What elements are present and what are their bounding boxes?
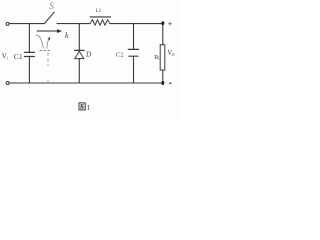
wire C2 top <box>133 24 135 49</box>
svg-text:C2: C2 <box>116 52 124 59</box>
wire C1 top <box>28 24 30 52</box>
svg-text:S: S <box>49 1 54 11</box>
inductor L1 core bar <box>90 16 111 18</box>
current arrow k <box>37 30 61 33</box>
capacitor C1 top plate <box>24 51 34 53</box>
wire top rail middle (switch to inductor) <box>57 23 90 25</box>
wire top rail left (terminal to switch) <box>9 23 44 25</box>
svg-text:Vi: Vi <box>2 52 9 60</box>
svg-text:C1: C1 <box>14 52 23 61</box>
capacitor C2 top plate <box>128 48 138 50</box>
switch actuation arc left <box>36 35 44 48</box>
wire diode D top <box>78 24 80 51</box>
svg-text:L1: L1 <box>96 8 102 14</box>
wire RL bottom <box>162 70 164 83</box>
caption 图 1 (CJK drawn as vector strokes) <box>79 103 85 110</box>
svg-text:V0: V0 <box>167 49 175 57</box>
svg-text:1: 1 <box>87 104 91 112</box>
wire C2 bottom <box>133 57 135 83</box>
node output + (junction dot) <box>161 21 164 25</box>
resistor RL body <box>160 45 165 70</box>
dashed control link vertical <box>47 53 49 83</box>
node output - (junction dot) <box>161 81 164 85</box>
inductor L1 zigzag <box>90 20 110 25</box>
input terminal bottom-left <box>6 82 9 85</box>
switch actuation arc right with arrowhead <box>47 38 49 48</box>
wire C1 bottom <box>28 57 30 83</box>
input terminal top-left <box>6 22 9 25</box>
dashed control link horizontal <box>40 49 51 51</box>
svg-text:k: k <box>65 30 69 40</box>
wire top rail right (inductor to output node) <box>110 23 163 25</box>
diode D triangle <box>75 51 84 58</box>
svg-text:D: D <box>86 51 91 59</box>
wire diode D bottom <box>78 59 80 83</box>
diode D cathode bar <box>75 49 85 51</box>
capacitor C1 bottom plate <box>24 56 34 58</box>
switch S blade <box>45 12 55 23</box>
wire RL top <box>162 24 164 45</box>
svg-text:+: + <box>168 19 172 28</box>
capacitor C2 bottom plate <box>129 55 138 57</box>
label - output <box>169 82 172 84</box>
wire bottom rail <box>9 82 163 84</box>
